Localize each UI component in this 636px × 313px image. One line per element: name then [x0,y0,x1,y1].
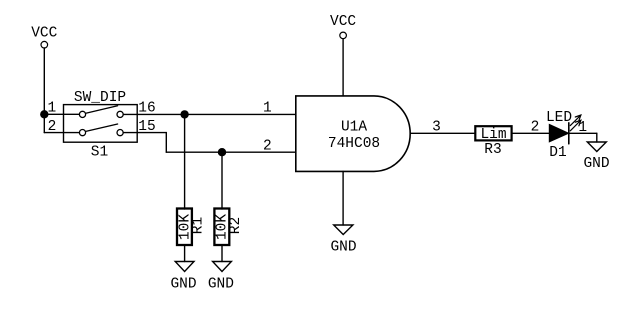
wire net2: S1 pin15 right [123,132,166,134]
AND gate U1A 74HC08 [296,96,410,171]
svg-text:GND: GND [208,277,234,293]
svg-text:74HC08: 74HC08 [328,136,380,152]
ground (R1) [170,262,196,293]
wire down to ground [596,133,598,142]
resistor R3 [475,126,511,158]
svg-text:D1: D1 [549,145,566,161]
svg-text:2: 2 [531,120,540,136]
LED D1 [546,110,581,161]
junction net1 / R1 [180,110,188,118]
wire D1 cathode to GND [569,132,597,134]
svg-text:Lim: Lim [480,127,506,143]
wire net1: S1 pin16 to U1A input 1 [123,113,296,115]
ground (U1A) [330,225,356,256]
svg-text:GND: GND [583,156,609,172]
svg-text:3: 3 [432,120,441,136]
svg-text:U1A: U1A [341,119,367,135]
wire stub to S1 pin 1 [44,113,79,115]
wire gate GND pin [342,171,344,225]
wire net2 vertical jog [165,133,167,153]
svg-text:2: 2 [263,138,272,154]
power symbol VCC (left) [31,26,57,49]
svg-text:1: 1 [47,101,56,117]
wire net2: to U1A input 2 [166,151,295,153]
wire R3 to D1 [512,132,549,134]
junction at VCC / pin1 row [40,110,48,118]
switch S1 contacts row 2 [79,130,85,136]
svg-text:2: 2 [48,119,57,135]
ground (R2) [208,262,234,293]
wire VCC left vertical down to pin2 row [43,48,45,133]
junction net2 / R2 [218,148,226,156]
switch S1 contacts row 1 [79,111,85,117]
resistor R2 [214,152,244,261]
svg-text:R3: R3 [484,142,501,158]
svg-text:R2: R2 [228,217,244,234]
svg-text:GND: GND [330,240,356,256]
svg-text:SW_DIP: SW_DIP [74,90,126,106]
svg-text:GND: GND [170,277,196,293]
resistor R1 [177,114,207,261]
wire stub to S1 pin 2 [44,132,79,134]
power symbol VCC (gate) [330,14,356,39]
switch S1 SW_DIP body [64,105,138,143]
svg-text:VCC: VCC [330,14,356,30]
wire gate VCC pin [342,39,344,96]
svg-text:R1: R1 [191,217,207,234]
wire U1A output to R3 [410,132,474,134]
svg-text:S1: S1 [91,145,108,161]
svg-text:VCC: VCC [31,26,57,42]
svg-text:1: 1 [263,101,272,117]
ground (D1) [583,142,609,172]
